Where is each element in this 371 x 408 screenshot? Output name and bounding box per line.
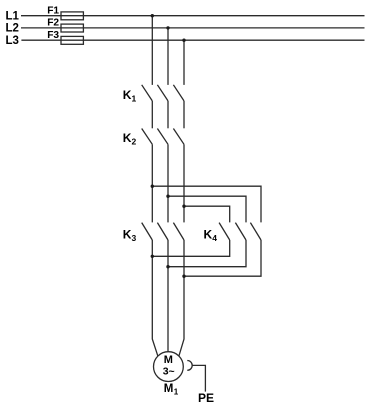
svg-text:L2: L2 (6, 23, 19, 35)
wire K4 tap phase1 horizontal (152, 186, 261, 222)
contactor K2 pole 1 (142, 129, 153, 145)
svg-text:F1: F1 (47, 6, 59, 17)
wire phase2 between K2 and K3 (167, 144, 169, 222)
contactor K3 pole 1 (142, 223, 153, 240)
node L1 junction (151, 14, 154, 17)
node return phase1 (151, 255, 154, 258)
wire phase1 vertical upper (151, 16, 153, 85)
wire phase1 between K2 and K3 (151, 144, 153, 222)
contactor K1 pole 1 (142, 85, 153, 101)
wire phase3 between K2 and K3 (183, 144, 185, 222)
svg-text:L3: L3 (6, 35, 19, 47)
fuse F3 (61, 36, 83, 44)
contactor K4 pole 3 (250, 223, 261, 240)
wire L3 bus (21, 39, 364, 41)
contactor K1 pole 3 (173, 85, 184, 101)
svg-text:F3: F3 (47, 30, 59, 41)
contactor K1 pole 2 (157, 85, 168, 101)
contactor K4 pole 1 (219, 223, 230, 240)
node return phase3 (182, 275, 185, 278)
node L3 junction (182, 39, 185, 42)
motor M1 circle (154, 352, 184, 382)
fuse F1 (61, 12, 83, 20)
wire K4 return inner (152, 240, 229, 256)
svg-text:K: K (123, 88, 132, 102)
wire L1 bus (21, 15, 365, 17)
wire K4 tap phase3 horizontal (184, 206, 230, 222)
svg-text:3: 3 (132, 233, 137, 243)
wire phase3 to motor (179, 240, 184, 356)
svg-text:M: M (164, 354, 173, 366)
wire K4 tap phase2 horizontal (168, 196, 246, 222)
contactor K2 pole 2 (157, 129, 168, 145)
svg-text:K: K (204, 227, 213, 241)
svg-text:1: 1 (174, 387, 179, 396)
PE terminal hook (187, 361, 192, 371)
node L2 junction (166, 26, 169, 29)
svg-text:1: 1 (132, 93, 137, 103)
contactor K4 pole 2 (235, 223, 246, 240)
svg-text:K: K (123, 131, 132, 145)
contactor K2 pole 3 (173, 129, 184, 145)
wire phase3 between K1 and K2 (183, 101, 185, 128)
node tap phase1 (151, 185, 154, 188)
svg-text:2: 2 (132, 136, 137, 146)
svg-text:F2: F2 (47, 18, 59, 29)
wire K4 return outer (184, 240, 261, 276)
wire phase1 between K1 and K2 (151, 101, 153, 128)
wire K4 return middle (168, 240, 246, 267)
wire phase3 vertical upper (183, 40, 185, 85)
contactor K3 pole 2 (157, 223, 168, 240)
wire PE (192, 365, 205, 391)
contactor K3 pole 3 (173, 223, 184, 240)
svg-text:M: M (164, 383, 174, 395)
svg-text:K: K (123, 227, 132, 241)
node tap phase3 (182, 205, 185, 208)
svg-text:3~: 3~ (163, 366, 175, 378)
node tap phase2 (166, 195, 169, 198)
svg-text:L1: L1 (6, 11, 20, 23)
wire phase2 vertical upper (167, 28, 169, 85)
fuse F2 (61, 24, 83, 32)
wire L2 bus (21, 27, 365, 29)
wire phase2 to motor (167, 240, 169, 352)
node return phase2 (166, 265, 169, 268)
wire phase2 between K1 and K2 (167, 101, 169, 128)
wire phase1 to motor (152, 240, 158, 356)
svg-text:PE: PE (198, 391, 214, 405)
svg-text:4: 4 (212, 233, 217, 243)
